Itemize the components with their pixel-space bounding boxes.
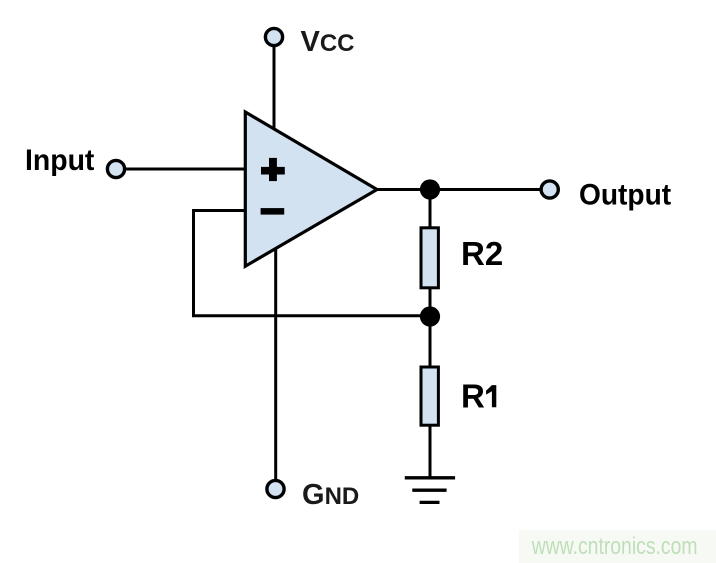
svg-text:Output: Output: [579, 179, 671, 212]
svg-text:R: R: [461, 378, 485, 415]
svg-text:Input: Input: [25, 144, 95, 177]
svg-text:GND: GND: [302, 479, 359, 511]
svg-text:R2: R2: [461, 235, 503, 272]
svg-text:www.cntronics.com: www.cntronics.com: [531, 532, 698, 560]
svg-text:VCC: VCC: [301, 26, 355, 58]
